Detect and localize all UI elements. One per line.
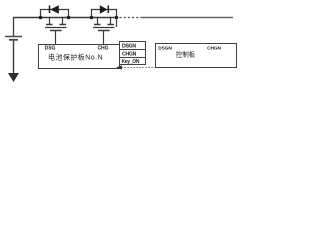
dashed control arrow (116, 65, 155, 69)
wire battery top lead (13, 17, 15, 36)
node junction right of D1 (67, 16, 71, 20)
diode D1 (body diode of Q1) (41, 5, 69, 17)
svg-text:Key_ON: Key_ON (122, 59, 140, 65)
pin box DSGN (120, 42, 146, 50)
node junction left of D1 (39, 16, 43, 20)
control board box (156, 44, 237, 68)
MOSFET Q1 (discharge FET) (45, 18, 67, 45)
svg-text:DSGN: DSGN (158, 46, 172, 52)
svg-text:CHGN: CHGN (122, 52, 137, 58)
battery protection board box (39, 45, 120, 69)
diode D2 (body diode of Q2) (92, 5, 117, 17)
wire battery bottom lead (13, 41, 15, 75)
svg-text:CHGN: CHGN (207, 46, 221, 52)
wire main top bus (13, 17, 117, 19)
wire dashed continuation (120, 17, 143, 19)
pin box Key_ON (120, 58, 146, 65)
wire stub below pack node (116, 18, 118, 28)
svg-text:DSGN: DSGN (122, 44, 136, 50)
node junction right of D2 (115, 16, 119, 20)
wire right solid segment (142, 17, 233, 19)
svg-text:CHG: CHG (97, 46, 108, 52)
battery cell (5, 37, 22, 40)
MOSFET Q2 (charge FET) (93, 18, 115, 45)
svg-text:DSG: DSG (45, 46, 56, 52)
arrow to next stage (8, 73, 19, 82)
svg-text:电池保护板No.N: 电池保护板No.N (48, 52, 103, 61)
node junction left of D2 (90, 16, 94, 20)
svg-text:控制板: 控制板 (176, 50, 196, 59)
pin box CHGN (120, 50, 146, 58)
